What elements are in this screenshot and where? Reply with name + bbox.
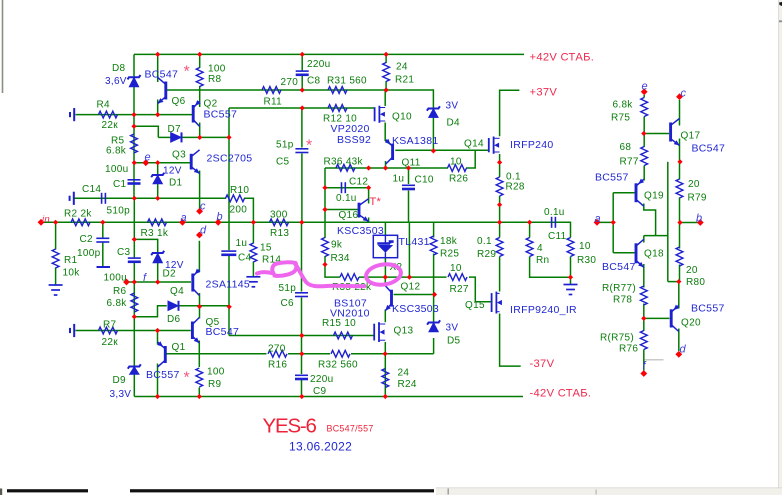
svg-text:Q1: Q1 <box>172 342 186 353</box>
svg-text:+37V: +37V <box>530 87 558 99</box>
wire y108 to Q10 gate <box>229 107 374 109</box>
wire x229 C4 to D6 wire <box>228 256 230 307</box>
svg-text:R13: R13 <box>270 228 289 239</box>
svg-text:Q4: Q4 <box>170 286 184 297</box>
wire C9 top <box>301 336 303 375</box>
svg-text:24: 24 <box>398 368 410 379</box>
junction dot at 158,282 <box>155 279 160 284</box>
resistor R75 6.8k <box>641 98 648 117</box>
junction dot at 56,222 <box>53 220 58 225</box>
svg-text:R2 2k: R2 2k <box>64 208 92 219</box>
wire Q15 source to -37V <box>500 314 521 367</box>
wire Q4 Q5 collectors <box>199 293 201 319</box>
svg-text:a: a <box>181 212 187 224</box>
svg-text:Q13: Q13 <box>394 326 414 337</box>
svg-text:20: 20 <box>688 179 700 190</box>
junction dot at 433,151 <box>431 148 436 153</box>
svg-text:R36 43k: R36 43k <box>324 157 364 168</box>
svg-text:IRFP240: IRFP240 <box>510 139 554 151</box>
wire Q19 collector run <box>644 204 656 236</box>
wire Q12 base to D5 <box>433 295 435 323</box>
wire Q16 collector lead <box>368 188 370 204</box>
wire R21 bottom lead <box>385 81 387 90</box>
ground R14 <box>246 277 260 287</box>
wire Q3 emitter to c node <box>199 171 201 209</box>
svg-text:R8: R8 <box>208 74 222 85</box>
svg-text:in: in <box>42 214 50 225</box>
wire x325 C12 to Q16 base <box>324 188 326 210</box>
svg-text:IRFP9240_IR: IRFP9240_IR <box>510 304 577 316</box>
svg-text:-42V СТАБ.: -42V СТАБ. <box>530 388 592 400</box>
svg-text:13.06.2022: 13.06.2022 <box>289 440 352 454</box>
svg-text:51p: 51p <box>276 140 294 151</box>
resistor Rn 4 <box>526 238 533 257</box>
junction dot at 434,294 <box>432 292 437 297</box>
junction dot at 325,264 <box>322 262 327 267</box>
capacitor C2 100p <box>96 238 109 242</box>
wire D7 cathode to x229 <box>182 136 230 138</box>
svg-text:2SC2705: 2SC2705 <box>207 153 253 165</box>
wire R24 leads <box>384 354 386 397</box>
junction dot at 302,54 <box>300 52 305 57</box>
wire R10 right corner <box>244 198 253 222</box>
wire C8 bottom lead <box>301 75 303 90</box>
wire Q13 source <box>384 342 386 354</box>
mosfet Q15 IRFP9240 <box>492 292 500 314</box>
diode D7 <box>171 132 182 142</box>
chrome bottom-left mark <box>0 489 2 495</box>
wire R1 bottom lead <box>55 268 57 286</box>
junction dot at 386,54 <box>384 52 389 57</box>
svg-text:BC557: BC557 <box>595 172 629 184</box>
wire left column top <box>133 54 135 77</box>
svg-text:C8: C8 <box>307 76 321 87</box>
zener D8 3.6V <box>128 75 141 87</box>
svg-text:C1: C1 <box>113 179 127 190</box>
svg-text:Q14: Q14 <box>464 139 484 150</box>
wire C14 R10 run <box>74 197 226 199</box>
node f left <box>123 279 130 286</box>
junction dot at 369,188 <box>366 185 371 190</box>
junction dot at 325,210 <box>322 207 327 212</box>
resistor R25 18k <box>430 236 437 255</box>
wire D4 bottom lead <box>432 118 434 151</box>
transistor Q16 KSC3503 <box>359 199 369 222</box>
wire R28 bottom to main <box>499 196 501 222</box>
wire D2 stub <box>134 239 157 252</box>
chrome bottom tick 1 <box>448 489 449 495</box>
svg-text:b: b <box>696 213 702 225</box>
svg-text:220u: 220u <box>310 374 333 385</box>
transistor Q4 2SA1145 <box>193 270 200 296</box>
wire Q11 collector run <box>405 149 489 151</box>
svg-text:3,6V: 3,6V <box>105 76 127 87</box>
svg-text:Q3: Q3 <box>172 150 186 161</box>
wire x325 Q16 to R34 <box>324 210 326 239</box>
svg-text:R28: R28 <box>506 182 525 193</box>
wire D5 to y354 <box>433 338 435 354</box>
annotation magenta ellipse <box>365 262 402 287</box>
svg-text:KSA1381: KSA1381 <box>392 135 438 147</box>
wire left column R6 leads <box>133 282 135 317</box>
svg-text:R4: R4 <box>97 100 111 111</box>
svg-text:220u: 220u <box>307 59 330 70</box>
junction dot at 613,222 <box>611 220 616 225</box>
junction dot at 385,277 <box>383 275 388 280</box>
junction dot at 253,222 <box>251 220 256 225</box>
capacitor C9 220u <box>295 375 308 379</box>
junction dot at 302,108 <box>300 105 305 110</box>
resistor R27 10 <box>448 274 467 281</box>
transistor Q6 BC547 <box>158 78 166 104</box>
wire D7 stub <box>134 126 158 137</box>
chrome black bar mid <box>130 489 434 492</box>
junction dot at 158,396 <box>155 394 160 399</box>
wire R34 corner to R35 <box>325 256 340 277</box>
wire Q1 base y354 <box>167 353 267 355</box>
ground output <box>564 285 578 295</box>
wire R75 to Q17 junction <box>643 117 645 134</box>
svg-text:R7: R7 <box>103 320 117 331</box>
svg-text:9k: 9k <box>331 240 343 251</box>
svg-text:6.8k: 6.8k <box>613 100 634 111</box>
zener D4 3V <box>427 106 440 117</box>
svg-text:-37V: -37V <box>530 358 555 370</box>
svg-text:10k: 10k <box>63 268 81 279</box>
node in <box>38 219 45 226</box>
wire R25 top lead <box>433 222 435 237</box>
svg-text:100: 100 <box>207 367 225 378</box>
wire R4 input <box>76 114 193 116</box>
capacitor C10 1u <box>402 185 415 189</box>
svg-text:D1: D1 <box>169 178 183 189</box>
junction dot at 302,336 <box>299 333 304 338</box>
svg-text:10: 10 <box>579 241 591 252</box>
junction dot at 302,222 <box>299 220 304 225</box>
junction dot at 158,54 <box>155 52 160 57</box>
svg-text:Q10: Q10 <box>392 112 412 123</box>
junction dot at 369,168 <box>366 165 371 170</box>
svg-text:C3: C3 <box>117 247 131 258</box>
wire R27 to Q15 gate <box>469 277 491 302</box>
chrome left border <box>2 0 4 93</box>
wire left column R5 leads <box>133 126 135 163</box>
wire R9 to bottom bus <box>198 388 200 397</box>
wire Q18 collector run <box>644 235 668 237</box>
junction dot at 199,396 <box>197 394 202 399</box>
resistor R76 <box>640 331 647 350</box>
junction dot at 644,134 <box>641 131 646 136</box>
svg-text:Q12: Q12 <box>401 282 421 293</box>
wire D2 anode to f wire <box>157 263 159 282</box>
wire R76 to f <box>643 350 645 371</box>
node e left <box>142 159 149 166</box>
wire Q16 base wire <box>325 209 358 211</box>
capacitor C4 1u <box>221 251 236 255</box>
junction dot at 200,306 <box>197 304 202 309</box>
resistor R35 22k <box>340 274 359 281</box>
wire C11 to R30 <box>557 222 571 237</box>
wire +37V feed <box>500 90 520 136</box>
resistor R29 0.1 <box>496 238 503 257</box>
wire y168 C12 to R26 <box>369 167 448 169</box>
svg-text:C5: C5 <box>276 157 290 168</box>
resistor R79 20 <box>676 179 683 198</box>
wire Q10 source to Q11 <box>385 123 391 145</box>
wire C9 bottom <box>301 380 303 397</box>
svg-text:51p: 51p <box>279 283 297 294</box>
svg-text:2SA1145: 2SA1145 <box>206 279 251 291</box>
node e right <box>641 88 648 95</box>
svg-text:6.8k: 6.8k <box>107 298 128 309</box>
transistor Q12 KSC3503 <box>385 286 391 311</box>
svg-text:R16: R16 <box>268 360 287 371</box>
chrome bottom strip line <box>436 487 782 489</box>
wire Q16 emitter touch <box>368 218 370 223</box>
transistor Q19 BC557 <box>636 179 644 206</box>
svg-text:R(R75): R(R75) <box>600 333 634 344</box>
resistor R7 22k <box>99 327 118 334</box>
svg-text:24: 24 <box>396 62 408 73</box>
wire R29 leads <box>499 222 501 237</box>
resistor R1 10k <box>52 249 59 268</box>
node f right <box>640 370 647 377</box>
wire Q18 emitter to R78 <box>643 264 645 288</box>
wire C6 top <box>301 222 303 291</box>
wire Q12 emitter to Q13 <box>384 310 386 323</box>
wire C5 column top <box>301 108 303 148</box>
svg-text:a: a <box>595 213 601 225</box>
wire left column C3 to f <box>133 262 135 282</box>
junction dot at 500,222 <box>497 220 502 225</box>
resistor R28 0.1 <box>496 177 503 196</box>
svg-text:100: 100 <box>208 64 226 75</box>
wire Q18 collector lead <box>643 236 645 243</box>
wire -42V bottom bus <box>134 396 523 398</box>
junction dot at 385,396 <box>383 394 388 399</box>
wire Q6 emitter lead <box>157 100 159 115</box>
wire gnd drop output <box>570 277 572 284</box>
resistor R21 24 <box>383 63 390 82</box>
wire Q14 source to R28 <box>499 154 501 177</box>
svg-text:Q18: Q18 <box>644 249 664 260</box>
wire left column R4 to D7 stub <box>133 115 135 127</box>
wire R8 bottom to Q2 emitter <box>199 86 201 107</box>
svg-text:D6: D6 <box>167 314 181 325</box>
wire R30 bottom <box>570 257 572 278</box>
svg-text:100u: 100u <box>105 164 128 175</box>
node d right <box>675 351 682 358</box>
svg-text:e: e <box>642 81 648 93</box>
ground R1 <box>49 285 63 295</box>
chrome right strip <box>778 0 782 495</box>
wire R80 leads <box>679 223 681 249</box>
svg-text:c: c <box>681 88 687 100</box>
wire y354 R16 R32 <box>288 353 330 355</box>
svg-text:C4: C4 <box>238 253 252 264</box>
junction dot at 679,282 <box>676 279 681 284</box>
wire C2 bottom lead <box>102 242 104 267</box>
svg-text:TL431: TL431 <box>399 236 430 248</box>
resistor R26 10 <box>448 165 467 172</box>
wire R79 top lead <box>679 162 681 180</box>
wire R21 top lead <box>385 54 387 63</box>
svg-text:R34: R34 <box>331 253 350 264</box>
svg-text:R21: R21 <box>395 75 414 86</box>
capacitor C6 51p <box>295 293 308 297</box>
svg-text:0.1u: 0.1u <box>544 207 565 218</box>
wire D7 anode <box>158 136 170 138</box>
resistor R31 560 <box>328 87 347 94</box>
chrome right top marks <box>779 2 782 6</box>
svg-text:18k: 18k <box>440 236 458 247</box>
wire C10 top lead <box>408 168 410 184</box>
resistor R2 2k <box>71 219 90 226</box>
wire C6 bottom <box>301 298 303 336</box>
junction dot at 386,90 <box>384 87 389 92</box>
wire Q17 base <box>644 133 669 135</box>
svg-text:R78: R78 <box>613 295 632 306</box>
svg-text:R29: R29 <box>477 249 496 260</box>
junction dot at 680,222 <box>677 220 682 225</box>
svg-text:R75: R75 <box>611 113 630 124</box>
svg-text:R31 560: R31 560 <box>327 76 367 87</box>
wire R29 to Q15 drain <box>499 257 501 292</box>
svg-text:C10: C10 <box>415 175 434 186</box>
junction dot at 134,317 <box>132 314 137 319</box>
junction dot at 680,162 <box>677 159 682 164</box>
resistor R14 15 <box>250 243 257 262</box>
chrome black bar left <box>7 489 88 492</box>
wire Q5 emitter to R9 <box>198 341 200 368</box>
capacitor C14 510p <box>102 193 106 204</box>
svg-text:R30: R30 <box>577 255 596 266</box>
resistor R36 43k <box>336 164 355 171</box>
junction dot at 530,222 <box>527 220 532 225</box>
svg-text:C11: C11 <box>548 231 567 242</box>
terminal left R4 <box>73 108 75 121</box>
junction dot at 134,115 <box>131 112 136 117</box>
svg-text:d: d <box>680 344 687 356</box>
svg-text:10: 10 <box>450 157 462 168</box>
annotation magenta squiggle <box>257 262 365 286</box>
svg-text:T*: T* <box>370 196 382 208</box>
wire x229 y108 to D7 wire <box>228 108 230 137</box>
junction dot at 570,277 <box>568 275 573 280</box>
wire R78 to base dot <box>643 304 645 319</box>
wire left column D8 to R4 <box>133 87 135 115</box>
wire D1 top lead <box>157 163 159 175</box>
transistor Q2 BC557 <box>193 101 200 127</box>
junction dot at 302,396 <box>299 394 304 399</box>
resistor R11 270 <box>262 87 281 94</box>
resistor R5 6.8k <box>131 134 138 153</box>
junction dot at 325,188 <box>322 185 327 190</box>
svg-text:R9: R9 <box>208 379 222 390</box>
svg-text:BC557: BC557 <box>146 369 180 381</box>
svg-text:KSC3503: KSC3503 <box>337 225 384 237</box>
wire D6 stub <box>134 306 167 317</box>
node c left <box>196 208 203 215</box>
wire Q12 base wire <box>394 294 434 296</box>
transistor Q20 BC557 <box>671 305 679 331</box>
node a right <box>594 219 601 226</box>
wire e node Q3 base <box>134 162 190 164</box>
junction dot at 134,282 <box>132 279 137 284</box>
wire R7 Q5 base <box>76 330 191 332</box>
wire y90 to D4 <box>386 90 433 109</box>
svg-text:R15 10: R15 10 <box>322 318 356 329</box>
wire Q17 collector to c <box>679 100 681 126</box>
svg-text:270: 270 <box>268 344 286 355</box>
svg-text:BC547: BC547 <box>206 326 240 338</box>
svg-text:R25: R25 <box>440 249 459 260</box>
svg-text:R10: R10 <box>230 185 249 196</box>
zener D9 3.3V <box>128 364 141 374</box>
svg-text:KSC3503: KSC3503 <box>392 303 439 315</box>
chrome grey line near f <box>645 359 664 361</box>
wire R76 leads <box>643 318 645 331</box>
resistor R32 560 <box>331 350 350 357</box>
svg-text:R(R77): R(R77) <box>602 283 636 294</box>
terminal left R7 <box>73 324 75 337</box>
svg-text:15: 15 <box>260 243 272 254</box>
wire Q11 emitter lead <box>385 161 387 168</box>
svg-text:12V: 12V <box>163 166 182 177</box>
wire b stub right <box>680 222 698 224</box>
wire Q6 collector lead <box>157 54 159 82</box>
wire left column C14 to main <box>133 198 135 222</box>
resistor R9 100 <box>196 368 203 387</box>
wire y277 Q12 to R27 <box>385 276 446 278</box>
resistor R34 9k <box>322 238 329 257</box>
svg-text:4: 4 <box>537 243 543 254</box>
junction dot at 500,162 <box>497 160 502 165</box>
resistor R3 1k <box>148 219 167 226</box>
resistor R10 200 <box>226 195 245 202</box>
chrome bottom tick 2 <box>596 490 597 495</box>
wire a stub right block <box>597 221 613 223</box>
svg-text:C9: C9 <box>313 386 327 397</box>
capacitor C3 100u <box>128 258 141 262</box>
zener D1 12V <box>151 173 164 184</box>
mosfet Q10 VP2020 <box>375 106 386 123</box>
wire TL431 cathode lead <box>384 222 386 235</box>
wire C12 wire <box>325 187 369 189</box>
wire x229 D6 to y335 <box>228 307 230 336</box>
chrome bottom strip <box>436 488 782 495</box>
wire left column R7 cross to D9 <box>133 317 135 367</box>
svg-text:*: * <box>184 64 191 81</box>
junction dot at 134,126 <box>131 124 136 129</box>
svg-text:R76: R76 <box>619 344 638 355</box>
wire Rn top lead <box>529 222 531 237</box>
svg-text:0.1: 0.1 <box>477 236 492 247</box>
svg-text:BC547: BC547 <box>602 261 636 273</box>
svg-text:BC547: BC547 <box>145 69 179 81</box>
transistor Q5 BC547 <box>192 318 199 344</box>
resistor R24 24 <box>382 369 389 388</box>
wire y354 R32 to Q13 <box>351 353 434 355</box>
svg-text:20: 20 <box>686 265 698 276</box>
capacitor C5 51p <box>295 149 308 153</box>
wire C5 column bottom <box>301 154 303 223</box>
wire R79 bottom to b <box>679 198 681 223</box>
svg-text:Rn: Rn <box>536 255 549 266</box>
svg-text:D4: D4 <box>447 118 461 129</box>
wire f bus <box>127 281 192 283</box>
svg-text:d: d <box>200 225 207 237</box>
